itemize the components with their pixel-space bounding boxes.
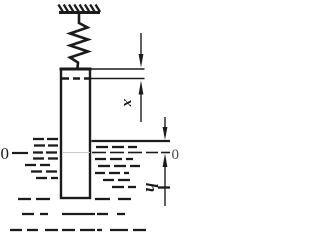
water dashes left of block bbox=[25, 139, 58, 178]
svg-text:h: h bbox=[142, 183, 161, 192]
svg-text:0: 0 bbox=[1, 144, 10, 163]
dimension x: upper arrow (down) bbox=[140, 33, 142, 56]
block (rectangle) bbox=[61, 69, 90, 198]
ceiling hatching bbox=[58, 5, 100, 13]
extension line from dashed level to x-dimension bbox=[91, 78, 145, 80]
water dashes below block row 1 bbox=[18, 198, 131, 200]
zero level dashes right of block bbox=[92, 152, 170, 154]
zero level axis: left lead dash bbox=[12, 152, 28, 154]
water dashes below block row 2 bbox=[22, 213, 125, 215]
water surface line (right of block) bbox=[92, 140, 171, 142]
svg-text:x: x bbox=[120, 98, 136, 107]
water dashes bottom row 3 bbox=[10, 229, 146, 231]
water dashes right of block bbox=[95, 147, 170, 188]
zero level line through block (thin) bbox=[62, 152, 90, 154]
extension line from block top to x-dimension bbox=[91, 68, 145, 70]
block top edge (thick) bbox=[60, 68, 92, 71]
dimension h: upper arrow (down) bbox=[164, 117, 166, 129]
svg-text:0: 0 bbox=[172, 147, 180, 163]
dashed line of initial block-top level inside block bbox=[62, 77, 90, 80]
ceiling line bbox=[59, 11, 100, 14]
dimension h: lower arrow (up) bbox=[164, 165, 166, 206]
spring bbox=[70, 13, 88, 68]
dimension x: lower arrow (up) bbox=[140, 92, 142, 122]
